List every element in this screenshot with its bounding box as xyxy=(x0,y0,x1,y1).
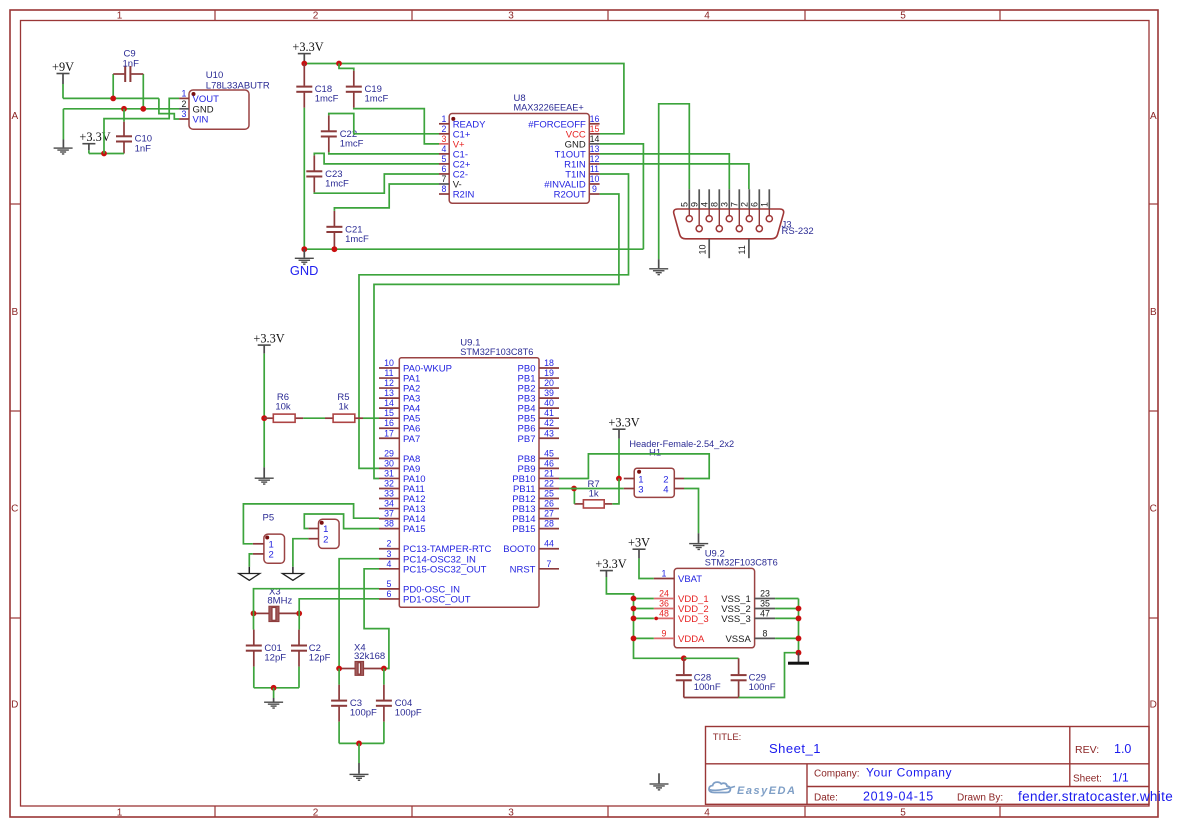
wire C21 bottom to GND rail xyxy=(333,248,335,249)
U8 pin 12 R1IN xyxy=(589,163,599,165)
svg-text:Company:: Company: xyxy=(814,769,860,780)
junction dot X3 left xyxy=(251,611,257,617)
svg-text:18: 18 xyxy=(544,358,554,368)
svg-text:44: 44 xyxy=(544,539,554,549)
P5 pin 2 xyxy=(253,553,264,555)
ground bar below U9.2 xyxy=(798,653,800,662)
P6 pin 1 xyxy=(308,528,318,530)
wire +3.3V to C10 bottom xyxy=(89,153,124,155)
svg-text:1: 1 xyxy=(182,88,187,98)
svg-text:5: 5 xyxy=(387,579,392,589)
U9.2 pin 24 VDD_1 xyxy=(654,598,674,600)
J3 pin 10 xyxy=(708,239,710,258)
capacitor C18 xyxy=(303,64,305,86)
svg-text:26: 26 xyxy=(544,499,554,509)
junction dot X4 left xyxy=(336,666,342,672)
svg-text:2: 2 xyxy=(269,550,274,561)
svg-text:43: 43 xyxy=(544,428,554,438)
svg-text:32: 32 xyxy=(384,478,394,488)
svg-text:5: 5 xyxy=(900,11,906,22)
svg-text:STM32F103C8T6: STM32F103C8T6 xyxy=(705,557,778,567)
U9.1 pin 2 PC13-TAMPER-RTC xyxy=(379,548,399,550)
junction dot R7 PB11 xyxy=(571,486,577,492)
U8 pin 15 VCC xyxy=(589,133,599,135)
wire R6 to R5 xyxy=(303,417,325,419)
svg-text:19: 19 xyxy=(544,368,554,378)
U9.2 pin 35 VSS_2 xyxy=(755,608,776,610)
wire PB10 to H1 pin2 loop xyxy=(559,454,709,479)
svg-text:6: 6 xyxy=(387,589,392,599)
wire rail to C29 xyxy=(684,657,739,659)
wire PC15 to X4 right xyxy=(364,569,389,669)
wire +3.3V to VDD rail xyxy=(606,577,683,658)
svg-text:EasyEDA: EasyEDA xyxy=(737,785,796,797)
svg-text:11: 11 xyxy=(737,245,747,254)
wire +3.3V up to U10 VOUT xyxy=(104,98,179,153)
svg-text:3: 3 xyxy=(638,484,643,495)
svg-text:32k168: 32k168 xyxy=(354,651,385,662)
wire C28 C29 bottoms to VSS rail xyxy=(684,697,739,699)
svg-text:3: 3 xyxy=(720,202,730,207)
svg-text:37: 37 xyxy=(384,509,394,519)
svg-text:3: 3 xyxy=(387,549,392,559)
svg-text:C: C xyxy=(11,503,18,514)
U9.1 pin 21 PB10 xyxy=(539,477,559,479)
U9.2 pin 8 VSSA xyxy=(755,637,776,639)
ground triangle below P6 xyxy=(282,574,303,581)
svg-text:24: 24 xyxy=(659,589,669,599)
svg-text:3: 3 xyxy=(182,109,187,119)
svg-text:16: 16 xyxy=(384,418,394,428)
svg-text:+3.3V: +3.3V xyxy=(79,130,110,144)
svg-text:46: 46 xyxy=(544,458,554,468)
U8 pin 3 V+ xyxy=(439,143,449,145)
svg-text:H1: H1 xyxy=(649,448,661,459)
svg-text:PB7: PB7 xyxy=(518,434,536,445)
power flag +3.3V at R6 xyxy=(258,344,271,346)
header H1 Header-Female-2.54_2x2 body xyxy=(634,468,674,497)
wire +3.3V rail to VCC xyxy=(304,64,624,134)
capacitor C04 xyxy=(383,669,385,685)
U9.1 pin 46 PB9 xyxy=(539,467,559,469)
svg-text:34: 34 xyxy=(384,499,394,509)
svg-text:C: C xyxy=(1150,503,1157,514)
U9.1 pin 16 PA6 xyxy=(379,427,399,429)
capacitor C22 xyxy=(328,115,330,130)
svg-text:10: 10 xyxy=(698,244,708,254)
svg-text:4: 4 xyxy=(704,807,710,818)
wire C19 to V+ pin3 xyxy=(354,108,439,144)
svg-text:1: 1 xyxy=(662,569,667,579)
junction dot GND rail C21 xyxy=(332,246,338,252)
VSS row wires xyxy=(775,598,798,600)
svg-text:PD1-OSC_OUT: PD1-OSC_OUT xyxy=(403,594,471,605)
U8 pin 16 #FORCEOFF xyxy=(589,123,599,125)
U9.1 pin 40 PB4 xyxy=(539,407,559,409)
svg-text:Your Company: Your Company xyxy=(866,766,952,780)
U9.1 pin 18 PB0 xyxy=(539,367,559,369)
U9.1 pin 34 PA13 xyxy=(379,508,399,510)
junction dot C9 left xyxy=(110,96,116,102)
svg-text:Sheet:: Sheet: xyxy=(1073,774,1102,785)
U8 pin 5 C2+ xyxy=(439,163,449,165)
svg-text:38: 38 xyxy=(384,519,394,529)
capacitor C3 xyxy=(338,669,340,685)
ground near DB9 xyxy=(658,259,660,268)
title block outline xyxy=(706,727,1150,805)
svg-text:VBAT: VBAT xyxy=(678,574,702,585)
wire C23 bottom to C2- pin6 xyxy=(314,174,439,193)
junction dot X4 right xyxy=(381,666,387,672)
svg-text:41: 41 xyxy=(544,408,554,418)
U10 pin 1 VOUT xyxy=(179,97,189,99)
connector P5 body xyxy=(264,534,285,563)
svg-text:4: 4 xyxy=(442,144,447,154)
ground below X4 xyxy=(358,763,360,774)
svg-text:2019-04-15: 2019-04-15 xyxy=(863,790,934,804)
svg-text:15: 15 xyxy=(384,408,394,418)
svg-text:45: 45 xyxy=(544,448,554,458)
power flag +3.3V at H1 xyxy=(613,428,626,430)
U9.1 pin 6 PD1-OSC_OUT xyxy=(379,598,399,600)
svg-text:1: 1 xyxy=(442,114,447,124)
svg-text:31: 31 xyxy=(384,468,394,478)
connector P6 body (unnamed) xyxy=(319,519,340,548)
U8 pin 8 R2IN xyxy=(439,193,449,195)
svg-text:B: B xyxy=(1150,307,1157,318)
junction dot C10 top xyxy=(121,106,127,112)
wire C23 top to C2+ pin5 xyxy=(314,153,439,164)
svg-text:12pF: 12pF xyxy=(309,653,331,664)
wire C18 to GND rail xyxy=(303,108,305,249)
U9.2 pin 9 VDDA xyxy=(654,637,674,639)
U9.2 pin 47 VSS_3 xyxy=(755,617,776,619)
wire C22 bottom to C1- pin4 xyxy=(329,152,439,154)
wire U8 R1IN to DB9 pin2 xyxy=(600,164,749,189)
capacitor C21 xyxy=(333,211,335,226)
svg-text:100nF: 100nF xyxy=(694,682,721,693)
svg-text:15: 15 xyxy=(590,124,600,134)
svg-text:+3.3V: +3.3V xyxy=(253,332,284,346)
wire U8 GND pin14 to rail xyxy=(600,144,644,249)
wire +9V to U10 VIN xyxy=(159,98,179,119)
junction dot R6 left xyxy=(261,415,267,421)
svg-text:VDDA: VDDA xyxy=(678,634,705,645)
svg-text:+3V: +3V xyxy=(628,536,650,550)
wire U8 T1IN to PA9 xyxy=(359,174,629,468)
ground GND rail xyxy=(303,249,305,257)
svg-text:2: 2 xyxy=(313,11,319,22)
U8 pin 1 READY xyxy=(439,123,449,125)
capacitor C23 xyxy=(313,155,315,170)
svg-text:1k: 1k xyxy=(338,402,348,413)
U9.1 pin 19 PB1 xyxy=(539,377,559,379)
wire +3V to VBAT xyxy=(639,558,654,578)
svg-text:5: 5 xyxy=(680,202,690,207)
svg-text:36: 36 xyxy=(659,599,669,609)
svg-text:23: 23 xyxy=(760,589,770,599)
ground below H1 xyxy=(698,533,700,543)
U9.1 pin 10 PA0-WKUP xyxy=(379,367,399,369)
frame row ticks left xyxy=(10,203,21,205)
J3 pin 8 xyxy=(718,189,720,209)
J3 pin 6 xyxy=(758,189,760,209)
U9.1 pin 13 PA3 xyxy=(379,397,399,399)
wire R5 to PA5 xyxy=(363,417,379,419)
U8 pin 10 #INVALID xyxy=(589,183,599,185)
svg-text:7: 7 xyxy=(730,202,740,207)
svg-text:+3.3V: +3.3V xyxy=(292,40,323,54)
U9.1 pin 41 PB5 xyxy=(539,417,559,419)
svg-text:R2OUT: R2OUT xyxy=(554,190,586,201)
svg-text:GND: GND xyxy=(290,263,318,278)
connector J3 RS-232 body xyxy=(674,209,784,239)
U9.1 pin 15 PA5 xyxy=(379,417,399,419)
svg-text:U10: U10 xyxy=(206,70,223,81)
svg-text:11: 11 xyxy=(384,368,393,378)
ground near +9V xyxy=(62,140,64,148)
U9.1 pin 29 PA8 xyxy=(379,457,399,459)
svg-text:1k: 1k xyxy=(589,489,599,500)
svg-text:1: 1 xyxy=(117,807,123,818)
regulator U10 L78L33ABUTR xyxy=(189,90,249,129)
svg-text:VDD_3: VDD_3 xyxy=(678,614,709,625)
title block row divider 1 xyxy=(706,763,1150,765)
svg-text:1/1: 1/1 xyxy=(1112,771,1129,785)
svg-text:35: 35 xyxy=(760,599,770,609)
ground below C01/C2 xyxy=(273,698,275,702)
svg-text:2: 2 xyxy=(313,807,319,818)
power flag +3.3V top rail xyxy=(298,53,311,55)
resistor R5 1k xyxy=(325,417,333,419)
U8 pin 14 GND xyxy=(589,143,599,145)
VDD row wires xyxy=(634,598,654,600)
VSS rail xyxy=(798,599,800,653)
wire PB11 to H1 pin3 xyxy=(559,488,624,490)
svg-text:VSSA: VSSA xyxy=(725,634,751,645)
wire +9V rail xyxy=(63,97,159,99)
svg-text:P5: P5 xyxy=(263,513,275,524)
junction dot X3 right xyxy=(296,611,302,617)
H1 pin 2 xyxy=(674,478,684,480)
junction dot +3.3V H1 pin1 xyxy=(616,476,622,482)
svg-text:8: 8 xyxy=(442,184,447,194)
svg-text:1mcF: 1mcF xyxy=(315,94,339,105)
capacitor C2 xyxy=(298,613,300,629)
svg-text:4: 4 xyxy=(704,11,710,22)
wire DB9 pin5 to ground xyxy=(659,104,690,259)
svg-text:VSS_3: VSS_3 xyxy=(721,614,751,625)
U9.1 pin 22 PB11 xyxy=(539,487,559,489)
svg-text:3: 3 xyxy=(442,134,447,144)
ground below R6 xyxy=(263,467,265,477)
svg-text:12pF: 12pF xyxy=(264,653,286,664)
wire PC14 to X4 left xyxy=(339,559,379,669)
svg-text:+3.3V: +3.3V xyxy=(595,557,626,571)
svg-text:5: 5 xyxy=(442,154,447,164)
power flag +3.3V at U9.2 xyxy=(600,570,613,572)
svg-text:PA7: PA7 xyxy=(403,434,420,445)
U9.1 pin 12 PA2 xyxy=(379,387,399,389)
svg-text:fender.stratocaster.white: fender.stratocaster.white xyxy=(1018,789,1173,804)
wire C01 C2 bottoms xyxy=(253,667,255,688)
svg-text:+9V: +9V xyxy=(52,60,74,74)
U9.1 pin 20 PB2 xyxy=(539,387,559,389)
resistor R7 1k xyxy=(574,503,583,505)
svg-text:B: B xyxy=(11,307,18,318)
wire X3 left to PD0 xyxy=(254,589,380,614)
frame row ticks right xyxy=(1149,203,1158,205)
U9.1 pin 27 PB14 xyxy=(539,518,559,520)
U9.1 pin 43 PB7 xyxy=(539,437,559,439)
U9.1 pin 7 NRST xyxy=(539,568,559,570)
svg-text:7: 7 xyxy=(442,174,447,184)
svg-text:5: 5 xyxy=(900,807,906,818)
junction dot GND rail left xyxy=(301,246,307,252)
U9.1 pin 33 PA12 xyxy=(379,498,399,500)
U9.2 pin 23 VSS_1 xyxy=(755,598,776,600)
capacitor C28 xyxy=(683,658,685,674)
svg-text:22: 22 xyxy=(544,478,554,488)
svg-text:VIN: VIN xyxy=(193,115,209,126)
U9.2 pin 36 VDD_2 xyxy=(654,608,674,610)
U9.1 pin 28 PB15 xyxy=(539,528,559,530)
wire GND rail xyxy=(304,248,643,250)
J3 pin 4 xyxy=(708,189,710,209)
resistor R6 10k xyxy=(264,417,273,419)
svg-text:RS-232: RS-232 xyxy=(782,226,814,237)
frame column ticks top xyxy=(214,10,216,21)
wire P6 pin2 to ground xyxy=(293,539,309,567)
junction dot +3.3V at C18 xyxy=(301,61,307,67)
svg-text:9: 9 xyxy=(592,184,597,194)
svg-text:4: 4 xyxy=(663,484,668,495)
svg-text:A: A xyxy=(1150,111,1157,122)
svg-text:Sheet_1: Sheet_1 xyxy=(769,741,821,756)
U8 pin 9 R2OUT xyxy=(589,193,599,195)
junction dot C28 xyxy=(681,655,687,661)
svg-text:MAX3226EEAE+: MAX3226EEAE+ xyxy=(514,103,584,113)
U9.1 pin 5 PD0-OSC_IN xyxy=(379,588,399,590)
svg-text:Header-Female-2.54_2x2: Header-Female-2.54_2x2 xyxy=(629,439,734,449)
svg-text:39: 39 xyxy=(544,388,554,398)
H1 pin 3 xyxy=(624,488,634,490)
svg-text:10k: 10k xyxy=(275,402,291,413)
svg-text:8MHz: 8MHz xyxy=(267,595,292,606)
svg-text:29: 29 xyxy=(384,448,394,458)
svg-text:47: 47 xyxy=(760,609,770,619)
svg-text:48: 48 xyxy=(659,609,669,619)
svg-text:D: D xyxy=(11,700,18,711)
wire C22 top to C1+ pin2 xyxy=(329,114,439,134)
crystal X3 8MHz xyxy=(254,612,269,614)
H1 pin 1 xyxy=(624,478,634,480)
power flag +3.3V at C10 xyxy=(82,143,95,145)
svg-text:6: 6 xyxy=(442,164,447,174)
svg-text:A: A xyxy=(11,111,18,122)
crystal X4 32k168 xyxy=(339,668,355,670)
ground triangle below P5 xyxy=(239,574,260,581)
J3 pin 9 xyxy=(698,189,700,209)
svg-text:2: 2 xyxy=(182,99,187,109)
capacitor C29 xyxy=(738,658,740,674)
svg-text:1: 1 xyxy=(117,11,123,22)
wire C3 C04 bottoms xyxy=(338,722,340,744)
U9.1 pin 14 PA4 xyxy=(379,407,399,409)
svg-text:16: 16 xyxy=(590,114,600,124)
svg-text:1nF: 1nF xyxy=(123,59,140,70)
svg-text:3: 3 xyxy=(508,807,514,818)
H1 pin 4 xyxy=(674,488,684,490)
svg-text:8: 8 xyxy=(710,202,720,207)
U9.2 pin 1 VBAT xyxy=(654,578,674,580)
U9.1 pin 17 PA7 xyxy=(379,437,399,439)
wire P5 pin2 to ground xyxy=(249,554,253,567)
wire to ground below X4 xyxy=(358,743,360,763)
svg-text:100pF: 100pF xyxy=(395,708,422,719)
svg-text:PA15: PA15 xyxy=(403,524,426,535)
svg-text:33: 33 xyxy=(384,489,394,499)
svg-text:28: 28 xyxy=(544,519,554,529)
U8 pin 13 T1OUT xyxy=(589,153,599,155)
svg-text:10: 10 xyxy=(384,358,394,368)
wire C21 top to V- pin7 xyxy=(334,184,439,211)
svg-text:8: 8 xyxy=(763,629,768,639)
svg-text:4: 4 xyxy=(700,202,710,207)
title block REV cell divider xyxy=(1069,727,1071,787)
U9.1 pin 39 PB3 xyxy=(539,397,559,399)
U9.2 pin 48 VDD_3 xyxy=(654,617,674,619)
wire P6 pin1 to PA15 xyxy=(304,514,379,529)
svg-text:11: 11 xyxy=(590,164,599,174)
wire U8 R2OUT to PA10 xyxy=(374,194,619,479)
J3 pin 1 xyxy=(768,189,770,209)
J3 pin 3 xyxy=(728,189,730,209)
junction dot C9 right xyxy=(140,106,146,112)
svg-text:13: 13 xyxy=(590,144,600,154)
svg-text:100pF: 100pF xyxy=(350,708,377,719)
svg-text:1mcF: 1mcF xyxy=(345,234,369,245)
svg-text:VOUT: VOUT xyxy=(193,94,220,105)
U8 pin 2 C1+ xyxy=(439,133,449,135)
U9.1 pin 31 PA10 xyxy=(379,477,399,479)
svg-text:12: 12 xyxy=(590,154,600,164)
svg-text:10: 10 xyxy=(590,174,600,184)
junction dot X4 gnd xyxy=(356,741,362,747)
EasyEDA logo xyxy=(709,782,735,792)
wire GND drop to ground xyxy=(62,109,64,140)
power flag +3V xyxy=(633,548,646,550)
capacitor C01 xyxy=(253,613,255,629)
svg-text:2: 2 xyxy=(323,534,328,545)
junction dot +3.3V at C19 xyxy=(336,61,342,67)
wire U8 T1OUT to DB9 pin3 xyxy=(600,154,730,189)
junction dot VDD_3 stub xyxy=(654,617,658,621)
U8 pin 7 V- xyxy=(439,183,449,185)
U8 pin 6 C2- xyxy=(439,173,449,175)
P6 pin 2 xyxy=(308,538,318,540)
title block row divider 2 xyxy=(807,786,1149,788)
U9.1 pin 3 PC14-OSC32_IN xyxy=(379,558,399,560)
svg-text:1mcF: 1mcF xyxy=(340,138,364,149)
svg-text:2: 2 xyxy=(740,202,750,207)
junction dot +3.3V branch xyxy=(101,151,107,157)
svg-text:REV:: REV: xyxy=(1075,744,1099,756)
svg-text:3: 3 xyxy=(508,11,514,22)
svg-text:21: 21 xyxy=(544,468,554,478)
junction dots VSS rail xyxy=(796,606,802,612)
svg-text:L78L33ABUTR: L78L33ABUTR xyxy=(206,81,270,92)
